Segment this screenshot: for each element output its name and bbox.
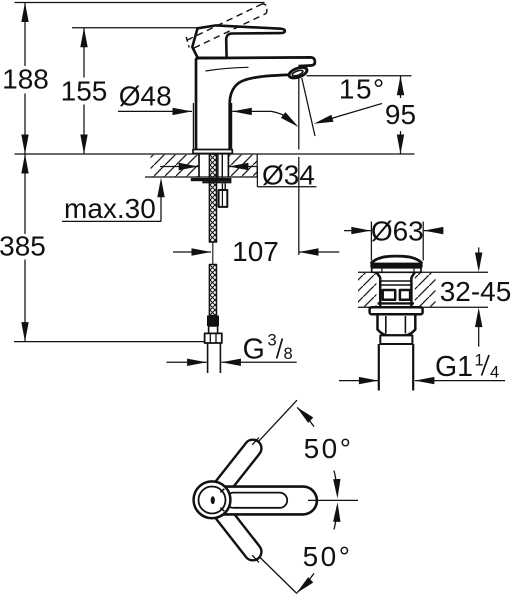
braided supply hose upper segment [209,154,216,242]
svg-text:4: 4 [490,364,499,382]
hole edge right [227,154,229,177]
drain counter top line [358,271,488,273]
threaded stud upper in hole [217,155,219,178]
dimension 95 [307,76,417,154]
top view: 50deg line stub into upper bar tip [252,438,259,445]
drain hex nut [378,314,416,335]
handle raised dashed butt [186,37,189,48]
top view: upper 50deg arc and arrows [297,407,354,499]
stud nut [219,190,228,207]
svg-text:8: 8 [284,345,293,363]
drain dome cap [371,256,422,263]
handle raised dashed tip [262,4,267,13]
dimension 32-45 [440,247,511,346]
dimension G3/8 [167,332,297,366]
extension line top of handle (188 ref) [15,2,265,4]
top view: 50deg line lower [229,527,297,594]
drain collar [380,335,412,344]
aerator outer [288,65,309,80]
top view: faucet body inner circle [199,487,226,514]
base plate [193,150,232,154]
vertical reference line from spout outlet [298,78,300,150]
svg-text:G: G [243,334,265,366]
dimension 188 [2,3,49,155]
drain counter bottom line [358,306,488,308]
mounting flange lower bar [202,181,231,183]
svg-text:1: 1 [475,351,484,369]
svg-text:155: 155 [61,75,108,106]
hole edge left [198,154,200,177]
top view: rotated handle lower 50 [213,504,261,561]
handle raised dashed line B [194,13,267,48]
spout underside curve [230,75,290,150]
threaded stud [221,183,223,190]
dimension Ø48 [118,80,299,148]
drain dome rim [370,263,422,268]
aerator inner [292,69,304,77]
svg-text:95: 95 [385,99,416,130]
dimension G1 1/4 [339,351,505,384]
top view: bar edge tick lower [220,508,224,511]
drain rim lower band [372,268,421,273]
top view: faucet body outer circle [194,481,231,518]
drain tailpipe G1 1/4 [378,344,380,391]
drain body bottom edge [378,302,415,304]
dimension 385 [0,154,46,342]
mounting flange plate [191,178,232,181]
top view: handle inner outline [226,493,287,508]
top view: lower 50deg arc and arrows [297,502,353,593]
svg-text:32-45: 32-45 [440,276,511,307]
counter right edge [256,154,258,177]
counter hatching left of hole [151,155,199,177]
svg-text:3: 3 [268,332,277,350]
hose end collar [207,316,219,327]
connection pipe G3/8 [207,343,209,373]
hose break centerline [212,242,214,265]
counter hatching right of hole [229,155,257,177]
handle lever solid [192,25,285,57]
dimension 107 [173,236,339,267]
svg-text:15°: 15° [339,73,386,104]
top view: center logo mark [211,496,215,504]
drain flange [370,307,423,314]
drain overflow window right [400,290,410,300]
svg-text:Ø34: Ø34 [262,160,315,191]
top view: handle neutral [220,487,317,515]
drain counter hatching right [415,273,436,307]
counter bottom line [145,176,257,178]
drain: dimension Ø63 [344,216,444,261]
drain counter hatching left [358,273,376,307]
faucet body outline [196,57,315,149]
top view: bar edge tick upper [220,489,224,492]
counter top line [15,153,415,155]
dimension Ø34 [160,160,317,191]
svg-text:385: 385 [0,231,46,262]
dimension 155 [61,28,108,154]
hose nut G3/8 [205,333,222,343]
top view: 50deg line stub into lower bar tip [252,555,259,562]
handle raised dashed line A [187,4,262,40]
svg-text:G1: G1 [435,351,473,383]
svg-text:max.30: max.30 [64,193,156,224]
drain overflow window left [383,290,396,300]
label 15 degrees [314,73,386,123]
extension line top of lever (155 ref) [72,27,198,29]
svg-text:Ø48: Ø48 [119,80,172,111]
top view: rotated handle upper 50 [213,440,261,496]
drain valve body [376,272,380,307]
braided supply hose lower segment [209,265,216,316]
svg-text:50°: 50° [303,541,353,572]
body top inner curve [206,67,249,71]
top view: 50deg line upper [229,400,297,473]
label max.30 [62,178,165,224]
hose end neck [209,326,218,333]
hose end reference line (385 ref) [14,341,205,343]
svg-text:107: 107 [232,236,279,267]
svg-text:188: 188 [2,64,49,95]
svg-text:50°: 50° [304,433,354,464]
svg-text:Ø63: Ø63 [371,216,424,247]
water stream 15 degree line [302,78,315,136]
top view: horizontal centerline [308,499,358,501]
